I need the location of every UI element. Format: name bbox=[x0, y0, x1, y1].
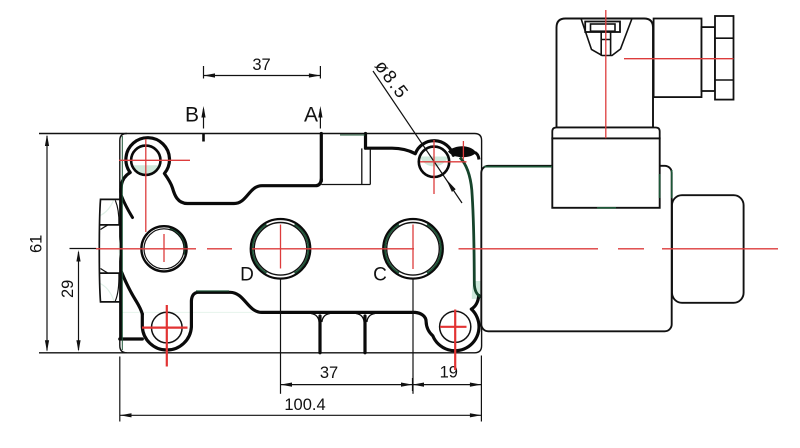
screw head slot bbox=[591, 24, 616, 31]
arrowhead leader ø8.5 bbox=[446, 179, 456, 192]
leader line ø8.5 bbox=[373, 71, 462, 203]
coil terminal block bbox=[552, 138, 659, 207]
DIN connector body bbox=[557, 19, 654, 128]
port P inner circle bbox=[144, 229, 184, 269]
section arrow shaft B bbox=[203, 109, 205, 129]
crosshair vertical bottom-left hole bbox=[166, 305, 168, 367]
step edge (thick vertical x=365) bbox=[364, 134, 367, 149]
cable gland collar bbox=[702, 27, 716, 91]
cable gland neck bbox=[654, 19, 702, 98]
slot web vertical x=365 bbox=[363, 316, 366, 353]
svg-text:D: D bbox=[240, 265, 254, 286]
top-right hole fill (light green segment) bbox=[420, 157, 449, 167]
connector gasket plate bbox=[552, 128, 659, 139]
green crescents in port D ring bbox=[252, 225, 308, 273]
fillet left of web x=320 bbox=[311, 314, 319, 323]
arrowhead section B bbox=[201, 106, 205, 118]
extension line between 37 and 19 bbox=[412, 378, 414, 391]
green S-curve along valve right side bbox=[460, 158, 481, 298]
centerline horizontal top-right hole bbox=[420, 161, 467, 163]
extension line 29 top bbox=[70, 248, 97, 250]
dimension line 29 bbox=[78, 252, 80, 350]
machined contour: bottom ledge with chamfer and both bottom U-slots bbox=[142, 292, 479, 350]
arrowheads dim 61 bbox=[45, 135, 49, 147]
green tick on terminal block right edge bbox=[659, 174, 661, 198]
arrowheads dim 37 top bbox=[204, 73, 216, 77]
machined contour: upper-right ledge into top-right boss lobe bbox=[366, 141, 454, 156]
extension line right edge bbox=[480, 356, 482, 422]
machined contour: top-left boss lobe with tails to rib A bbox=[121, 138, 321, 204]
svg-text:37: 37 bbox=[320, 364, 338, 382]
screw shank bbox=[601, 32, 610, 56]
mounting hole top-right (ø8.5) bbox=[419, 147, 449, 177]
mounting hole bottom-left bbox=[152, 312, 183, 343]
centerline vertical DIN connector bbox=[605, 10, 607, 138]
section arrow shaft A bbox=[319, 109, 321, 129]
dimension line 37 (bottom) bbox=[281, 384, 413, 386]
port D outer circle bbox=[251, 219, 311, 279]
slot pocket tail bbox=[475, 153, 479, 160]
centerline tick of hidden hole right of top-right hole bbox=[462, 141, 464, 160]
dimension line 19 bbox=[413, 384, 482, 386]
top-left hole fill (light green segment) bbox=[132, 165, 160, 175]
fillet left of web x=365 bbox=[356, 314, 364, 323]
centerline vertical top-left hole bbox=[145, 139, 147, 232]
centerline horizontal top-left hole bbox=[119, 159, 190, 161]
pocket edge vertical x=370 bbox=[369, 149, 371, 185]
svg-text:C: C bbox=[373, 265, 387, 286]
section plane tick at B bbox=[202, 134, 205, 142]
port C inner circle bbox=[387, 223, 440, 276]
gland nut groove upper bbox=[715, 37, 734, 39]
centerline horizontal cable gland bbox=[624, 58, 734, 60]
right-side channel fill (light green) bbox=[472, 281, 482, 299]
port P outer circle bbox=[141, 226, 186, 271]
valve body left edge bbox=[120, 134, 127, 353]
filled slot pocket right of top-right hole bbox=[448, 146, 476, 157]
green crescent in port P ring bbox=[170, 229, 185, 255]
connector screw recess bbox=[581, 19, 632, 56]
hex plug lower band line bbox=[100, 272, 120, 274]
arrowheads dim 19 bbox=[413, 383, 425, 387]
contour branch below top-left lobe bbox=[122, 196, 133, 218]
fillet right of web x=320 bbox=[322, 314, 330, 323]
extension line from port C bbox=[412, 278, 414, 394]
svg-text:37: 37 bbox=[252, 56, 270, 74]
gland nut groove lower bbox=[715, 79, 734, 81]
valve body outline (top, right, bottom edges with 61/100.4 extension lines) bbox=[39, 134, 482, 353]
centerline vertical port C bbox=[412, 225, 414, 270]
hex plug body (side view, left of valve body) bbox=[99, 199, 120, 302]
hidden arc (light green) in plug top band bbox=[99, 199, 114, 216]
pocket ledge line y=184.5 bbox=[321, 184, 370, 186]
hex plug facet shading (light green) bbox=[119, 232, 121, 266]
arrowheads dim 100.4 bbox=[120, 413, 132, 417]
hex plug mid facet arc lower bbox=[101, 269, 108, 273]
mounting hole bottom-right bbox=[440, 311, 471, 342]
green tint on chamfer ledge bbox=[196, 290, 229, 292]
solenoid coil body bbox=[481, 166, 671, 331]
green segment on solenoid top edge bbox=[484, 166, 552, 168]
svg-text:100.4: 100.4 bbox=[284, 396, 325, 414]
extension line from port D bbox=[280, 278, 282, 394]
armature end cap bbox=[672, 195, 744, 303]
arrowheads dim 29 bbox=[76, 250, 80, 262]
extension line left edge bbox=[119, 357, 121, 422]
cable gland nut bbox=[715, 16, 734, 100]
contour S-curve to bottom-left U-slot bbox=[122, 272, 143, 314]
green tick on terminal block bottom bbox=[597, 207, 616, 209]
hidden arc (light green) in plug bottom band bbox=[99, 283, 114, 301]
green segment under top edge bbox=[340, 134, 365, 136]
arrowheads dim 37 bottom bbox=[281, 383, 293, 387]
svg-text:A: A bbox=[304, 104, 318, 127]
extension line at A bbox=[319, 66, 321, 79]
contour shelf at y=339 to left edge bbox=[120, 337, 143, 340]
centerline vertical port D bbox=[280, 225, 282, 269]
green crescents in port C ring bbox=[385, 225, 441, 273]
crosshair horizontal bottom-right hole bbox=[440, 326, 467, 328]
centerline vertical port P bbox=[163, 234, 165, 262]
thick left edge overlay bbox=[120, 186, 123, 339]
port C outer circle bbox=[383, 219, 443, 279]
arrowhead section A bbox=[318, 106, 322, 118]
screw head bbox=[585, 22, 620, 33]
dimension line 100.4 bbox=[120, 414, 481, 416]
pocket edge vertical x=362 bbox=[361, 148, 363, 184]
crosshair vertical bottom-right hole bbox=[454, 310, 456, 371]
green offset line along left edge bbox=[121, 136, 123, 350]
port D inner circle bbox=[254, 223, 307, 276]
hex plug chamfer arc bottom bbox=[115, 274, 119, 301]
dimension line 61 bbox=[46, 136, 48, 351]
svg-text:B: B bbox=[185, 104, 199, 127]
svg-text:61: 61 bbox=[28, 235, 46, 253]
slot web vertical x=320 bbox=[318, 316, 321, 353]
dimension line 37 (top) bbox=[204, 75, 321, 77]
crosshair horizontal bottom-left hole bbox=[142, 327, 188, 329]
mounting hole top-left bbox=[131, 146, 160, 175]
smudge right of top-right hole (light green) bbox=[451, 151, 461, 156]
hex plug mid facet arc upper bbox=[101, 225, 108, 229]
fillet right of web x=365 bbox=[367, 314, 375, 323]
rib edge at section A (thick vertical x=321) bbox=[320, 134, 323, 182]
main horizontal centerline (chain line) bbox=[96, 248, 778, 250]
hex plug chamfer arc top bbox=[115, 200, 119, 224]
hex plug upper band line bbox=[100, 224, 120, 226]
centerline vertical top-right hole bbox=[433, 140, 435, 194]
green tick on solenoid right edge bbox=[671, 170, 673, 198]
extension line at B bbox=[203, 66, 205, 79]
svg-text:29: 29 bbox=[59, 280, 77, 298]
hidden line (light green) under bottom ledge bbox=[122, 311, 253, 313]
